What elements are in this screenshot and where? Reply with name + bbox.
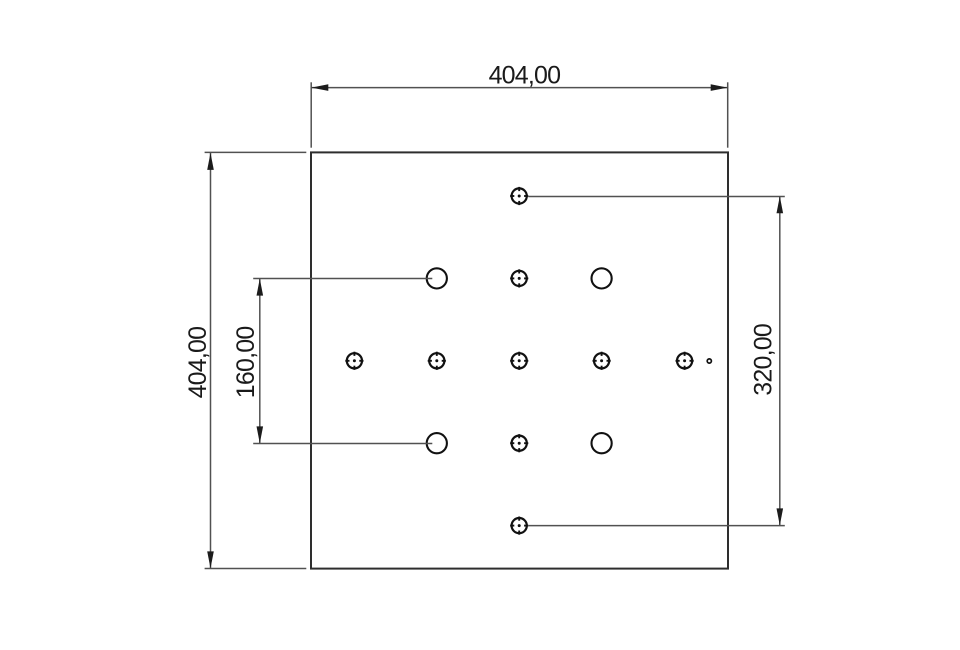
big hole row2 col2 — [427, 268, 447, 288]
threaded hole top center — [510, 187, 528, 205]
threaded hole row4 col3 — [510, 434, 528, 452]
320 dimension extension line top (from top threaded hole) — [528, 196, 784, 198]
threaded hole mid col1 — [345, 352, 363, 370]
top dimension extension line right — [727, 82, 729, 147]
svg-text:160,00: 160,00 — [232, 327, 260, 399]
left dimension top arrow — [207, 153, 214, 170]
small pilot hole right of mid row — [707, 359, 711, 363]
left dimension extension line bottom — [205, 568, 307, 570]
320 dimension line — [779, 196, 781, 525]
left dimension extension line top — [205, 151, 307, 153]
160 dimension top arrow — [257, 279, 264, 296]
threaded hole mid col4 — [593, 352, 611, 370]
320 dimension extension line bottom (from bottom threaded hole) — [528, 525, 784, 527]
big hole row4 col4 — [592, 433, 612, 453]
threaded hole mid col5 — [676, 352, 694, 370]
top dimension right arrow — [711, 84, 728, 91]
big hole row4 col2 — [427, 433, 447, 453]
320 dimension bottom arrow — [777, 508, 784, 525]
160 dimension line — [259, 279, 261, 444]
left dimension bottom arrow — [207, 551, 214, 568]
threaded hole row2 col3 — [510, 269, 528, 287]
svg-text:404,00: 404,00 — [184, 327, 212, 399]
big hole row2 col4 — [592, 268, 612, 288]
threaded hole mid col2 — [428, 352, 446, 370]
160 dimension extension line top (to upper big hole center) — [253, 278, 432, 280]
threaded hole mid col3 — [510, 352, 528, 370]
plate outline (404 x 404 square) — [311, 152, 728, 568]
top dimension left arrow — [311, 84, 328, 91]
threaded hole bottom center — [510, 517, 528, 535]
top dimension extension line left — [310, 82, 312, 147]
svg-text:404,00: 404,00 — [489, 62, 561, 90]
svg-text:320,00: 320,00 — [749, 324, 777, 396]
160 dimension bottom arrow — [257, 426, 264, 443]
160 dimension extension line bottom (to lower big hole center) — [253, 443, 432, 445]
left dimension line — [210, 153, 212, 569]
320 dimension top arrow — [777, 196, 784, 213]
top dimension line — [311, 87, 727, 89]
